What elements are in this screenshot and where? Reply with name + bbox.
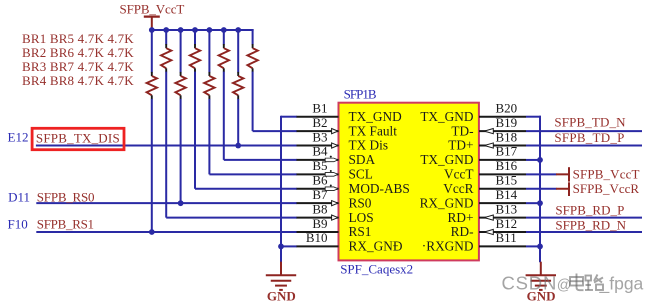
svg-text:TX_GND: TX_GND [420,152,474,167]
svg-text:VccT: VccT [444,167,474,182]
svg-text:B18: B18 [496,129,518,144]
svg-text:B1: B1 [312,101,327,116]
svg-text:TX Dis: TX Dis [349,138,389,153]
svg-text:B20: B20 [496,101,518,116]
svg-text:MOD-ABS: MOD-ABS [349,181,410,196]
svg-text:CSDN: CSDN [502,272,558,293]
svg-text:F10: F10 [8,217,28,232]
svg-text:RD-: RD- [451,224,474,239]
svg-text:SFPB_RD_N: SFPB_RD_N [555,217,626,232]
svg-text:B9: B9 [312,216,327,231]
svg-text:SFPB_TX_DIS: SFPB_TX_DIS [36,130,120,145]
svg-text:RX_GND: RX_GND [420,195,474,210]
svg-text:B8: B8 [312,201,327,216]
svg-text:SCL: SCL [349,167,373,182]
svg-text:TX Fault: TX Fault [349,123,398,138]
svg-text:RX_GNĐ: RX_GNĐ [349,239,403,254]
svg-text:B16: B16 [496,158,518,173]
svg-text:B11: B11 [496,230,517,245]
svg-text:_fpga: _fpga [599,273,644,294]
svg-text:SFPB_VccT: SFPB_VccT [120,1,185,16]
svg-text:VccR: VccR [443,181,473,196]
svg-text:RD+: RD+ [448,210,474,225]
svg-text:D11: D11 [8,190,30,205]
svg-text:B13: B13 [496,201,518,216]
svg-text:B14: B14 [496,187,518,202]
svg-text:B19: B19 [496,115,518,130]
svg-text:B10: B10 [306,230,328,245]
svg-text:TX_GND: TX_GND [349,109,403,124]
svg-text:TD-: TD- [451,123,473,138]
svg-text:SDA: SDA [349,152,376,167]
svg-text:B12: B12 [496,216,518,231]
svg-text:SFPB_VccR: SFPB_VccR [573,181,640,196]
svg-text:BR2 BR6 4.7K 4.7K: BR2 BR6 4.7K 4.7K [22,45,134,60]
svg-text:BR1 BR5 4.7K 4.7K: BR1 BR5 4.7K 4.7K [22,31,134,46]
svg-text:TX_GND: TX_GND [420,109,474,124]
svg-text:B2: B2 [312,115,327,130]
svg-text:GND: GND [267,289,296,302]
svg-text:SFPB_RD_P: SFPB_RD_P [555,202,624,217]
svg-text:B4: B4 [312,144,328,159]
svg-text:SFPB_RS0: SFPB_RS0 [37,190,95,205]
svg-text:BR4 BR8 4.7K 4.7K: BR4 BR8 4.7K 4.7K [22,73,134,88]
svg-text:LOS: LOS [349,210,374,225]
svg-text:B3: B3 [312,129,327,144]
svg-text:SFPB_VccT: SFPB_VccT [573,166,640,181]
svg-text:SFPB_RS1: SFPB_RS1 [37,217,94,232]
svg-text:B15: B15 [496,173,518,188]
svg-text:·RXGND: ·RXGND [422,239,474,254]
svg-text:SFPB_TD_P: SFPB_TD_P [554,130,624,145]
svg-text:E12: E12 [8,129,29,144]
svg-text:SPF_Caqesx2: SPF_Caqesx2 [340,261,413,276]
svg-text:RS0: RS0 [349,195,372,210]
svg-text:SFPB_TD_N: SFPB_TD_N [554,115,626,130]
svg-text:SFP1B: SFP1B [344,87,377,102]
svg-text:TD+: TD+ [448,138,473,153]
svg-text:B17: B17 [496,144,518,159]
svg-text:BR3 BR7 4.7K 4.7K: BR3 BR7 4.7K 4.7K [22,59,134,74]
svg-text:RS1: RS1 [349,224,372,239]
